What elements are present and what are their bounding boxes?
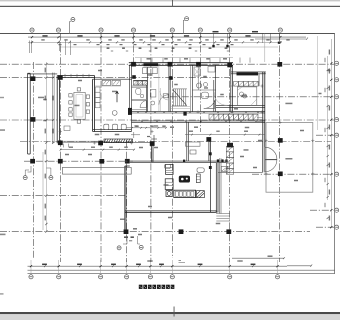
tall cabinet column hatched bbox=[226, 146, 233, 152]
family west wall bbox=[125, 166, 130, 229]
stair treads bbox=[173, 89, 175, 106]
right dim figures bbox=[329, 50, 330, 55]
closet row top strip bbox=[133, 80, 147, 81]
column row annotation marks bbox=[124, 236, 128, 238]
left leader bubble A bbox=[28, 166, 32, 172]
top leader bubble B bbox=[183, 21, 184, 34]
bath west wall bbox=[191, 65, 193, 111]
family south wall bbox=[125, 211, 217, 213]
hall closet hatched row bbox=[133, 81, 138, 85]
hall inner columns bbox=[132, 75, 136, 79]
bedroom closet side wall bbox=[258, 74, 260, 87]
north-west wall bbox=[57, 76, 94, 78]
corridor cabinet hatched row bbox=[209, 114, 214, 120]
dining south window ticks bbox=[64, 144, 69, 148]
terrace eq hatched box bbox=[221, 166, 228, 171]
bath east wall bbox=[214, 65, 216, 111]
east door arc upper bbox=[265, 147, 277, 159]
hall partition wall bbox=[146, 67, 147, 112]
left dim upper ticks bbox=[52, 76, 54, 78]
top dim line 2 bbox=[28, 41, 282, 43]
stair side window bbox=[163, 94, 168, 98]
tall cabinet top dark cell bbox=[227, 143, 233, 148]
hall door arcs bbox=[159, 95, 169, 105]
entry pergola posts bbox=[214, 33, 228, 46]
wardrobe hatched row bbox=[234, 81, 239, 86]
kitchen west wall bbox=[93, 76, 95, 132]
kitchen north wall bbox=[93, 78, 132, 80]
right inner extension line bbox=[317, 36, 319, 130]
south planter outline bbox=[62, 167, 131, 174]
east wall upper bbox=[263, 72, 265, 121]
porch chairs row bbox=[104, 124, 109, 129]
kitchen stove hatched bbox=[102, 80, 111, 85]
corridor north wall bbox=[132, 112, 265, 113]
powder door arc bbox=[140, 101, 147, 108]
porch interior dim line bbox=[126, 127, 167, 129]
kitchen west counter boxes bbox=[95, 87, 100, 92]
east door arc lower bbox=[265, 160, 277, 172]
bath fixtures bbox=[201, 92, 208, 99]
living west wall bbox=[187, 122, 189, 161]
drawing title text bbox=[139, 285, 143, 289]
top border line bbox=[0, 32, 335, 34]
stair hall west wall bbox=[169, 65, 170, 111]
vertical grid lines bbox=[32, 62, 34, 258]
porch roof edge bbox=[28, 73, 58, 75]
sheet divider top bbox=[0, 0, 340, 1]
top dim line 3 bbox=[60, 46, 278, 48]
bottom dim figures bbox=[42, 264, 47, 266]
family north wall posts bbox=[217, 159, 219, 162]
hall arrow up bbox=[116, 91, 119, 102]
living small table bbox=[190, 150, 196, 154]
right dim ticks bbox=[330, 62, 332, 64]
right terrace outline bbox=[266, 123, 313, 193]
bottom dim ticks bbox=[30, 265, 32, 267]
tv hatched box bbox=[197, 191, 205, 198]
porch step box bbox=[165, 164, 171, 168]
corridor junction blob bbox=[183, 112, 186, 116]
top dim tick slashes bbox=[31, 36, 33, 38]
east wall top extension bbox=[264, 33, 266, 62]
right dim line bbox=[330, 39, 332, 228]
dining chairs bbox=[69, 94, 72, 97]
north wall window ticks bbox=[140, 58, 142, 63]
sofa single top bbox=[166, 164, 174, 174]
powder room toilet bbox=[136, 88, 141, 94]
bottom leader bubble A bbox=[123, 236, 127, 244]
bottom grid bubbles bbox=[30, 260, 32, 275]
dining niche box bbox=[64, 126, 70, 131]
bedroom north window hatch bbox=[237, 72, 259, 75]
top leader bubble A bbox=[70, 22, 71, 34]
fridge dark box bbox=[128, 108, 132, 115]
top grid bubbles row bbox=[30, 28, 34, 32]
left dim line lower bbox=[43, 62, 46, 232]
sheet divider top tick bbox=[171, 0, 174, 7]
misc clutter marks bbox=[137, 112, 139, 113]
sofa coffee table dark bbox=[179, 176, 190, 183]
bottom dim sub line bbox=[232, 257, 285, 259]
bottom-left small mark bbox=[179, 260, 186, 262]
bed bbox=[237, 87, 256, 105]
round stool bbox=[166, 191, 172, 197]
north window hatched band bbox=[144, 63, 159, 66]
top dim figures bbox=[42, 35, 47, 36]
bottom dim line bbox=[28, 264, 313, 266]
dining west wall bbox=[57, 76, 59, 144]
terrace side wall bbox=[219, 158, 221, 213]
east wall lower bbox=[263, 121, 265, 172]
bedroom north wall band bbox=[231, 72, 266, 74]
sheet divider bottom bbox=[0, 312, 340, 314]
right outer border bbox=[334, 33, 336, 273]
sofa side seat bbox=[196, 174, 200, 183]
corridor south wall bbox=[132, 121, 265, 122]
south railing hatched band bbox=[104, 139, 133, 143]
bedroom east window marks bbox=[257, 118, 263, 122]
bedroom south wall bbox=[216, 105, 265, 107]
entry south wall line bbox=[98, 142, 150, 144]
living dim line bbox=[185, 134, 265, 136]
horizontal grid lines bbox=[0, 63, 334, 65]
sofa single left bbox=[165, 179, 173, 190]
living family divider wall bbox=[209, 142, 211, 213]
dining table bbox=[74, 92, 85, 119]
bedroom west wall bbox=[231, 65, 233, 111]
left margin text marks bbox=[0, 234, 6, 236]
left dim line upper bbox=[52, 73, 54, 144]
sheet divider bottom tick bbox=[173, 307, 176, 317]
left leader bubble B bbox=[49, 176, 53, 180]
dining north window ticks bbox=[65, 74, 89, 78]
right grid bubbles bbox=[335, 61, 339, 65]
ne wall extension lines bbox=[263, 33, 280, 43]
bottom leader bubble B bbox=[138, 236, 140, 244]
bottom border double line bbox=[28, 270, 335, 274]
living south opening bbox=[218, 171, 263, 173]
top dim line 1 bbox=[28, 36, 306, 38]
structural columns bbox=[31, 76, 36, 81]
inner wc fixture bbox=[150, 90, 156, 98]
north outer sill line bbox=[135, 57, 233, 59]
bath partition bbox=[192, 65, 215, 90]
family east wall bbox=[216, 163, 218, 212]
powder partitions bbox=[132, 86, 148, 110]
hall circle table bbox=[112, 111, 117, 116]
pantry bay rect bbox=[143, 68, 158, 74]
entry leader marks bbox=[151, 135, 157, 143]
room name text marks bbox=[38, 97, 44, 99]
top right dim tail bbox=[255, 37, 308, 39]
top dim extension lines bbox=[30, 41, 71, 56]
kitchen counter line bbox=[95, 85, 121, 87]
dining south window sill bbox=[61, 141, 98, 142]
terrace steps bbox=[216, 214, 230, 222]
porch dim line bbox=[60, 149, 135, 151]
kitchen south wall bbox=[93, 130, 132, 132]
sofa long couch bbox=[174, 190, 196, 197]
hall east wall bbox=[130, 65, 132, 131]
hearth bar bbox=[186, 142, 201, 146]
right dim line 2 bbox=[327, 56, 329, 200]
family north wall bbox=[130, 161, 227, 162]
left dim lower ticks bbox=[45, 63, 47, 65]
entry column wall bbox=[152, 143, 154, 162]
west colonnade wall bbox=[28, 73, 31, 154]
north main wall bbox=[129, 63, 233, 66]
tv bench rounded bbox=[197, 168, 204, 172]
stair hall handrail bbox=[159, 66, 160, 111]
pantry bay mullions bbox=[147, 68, 153, 74]
